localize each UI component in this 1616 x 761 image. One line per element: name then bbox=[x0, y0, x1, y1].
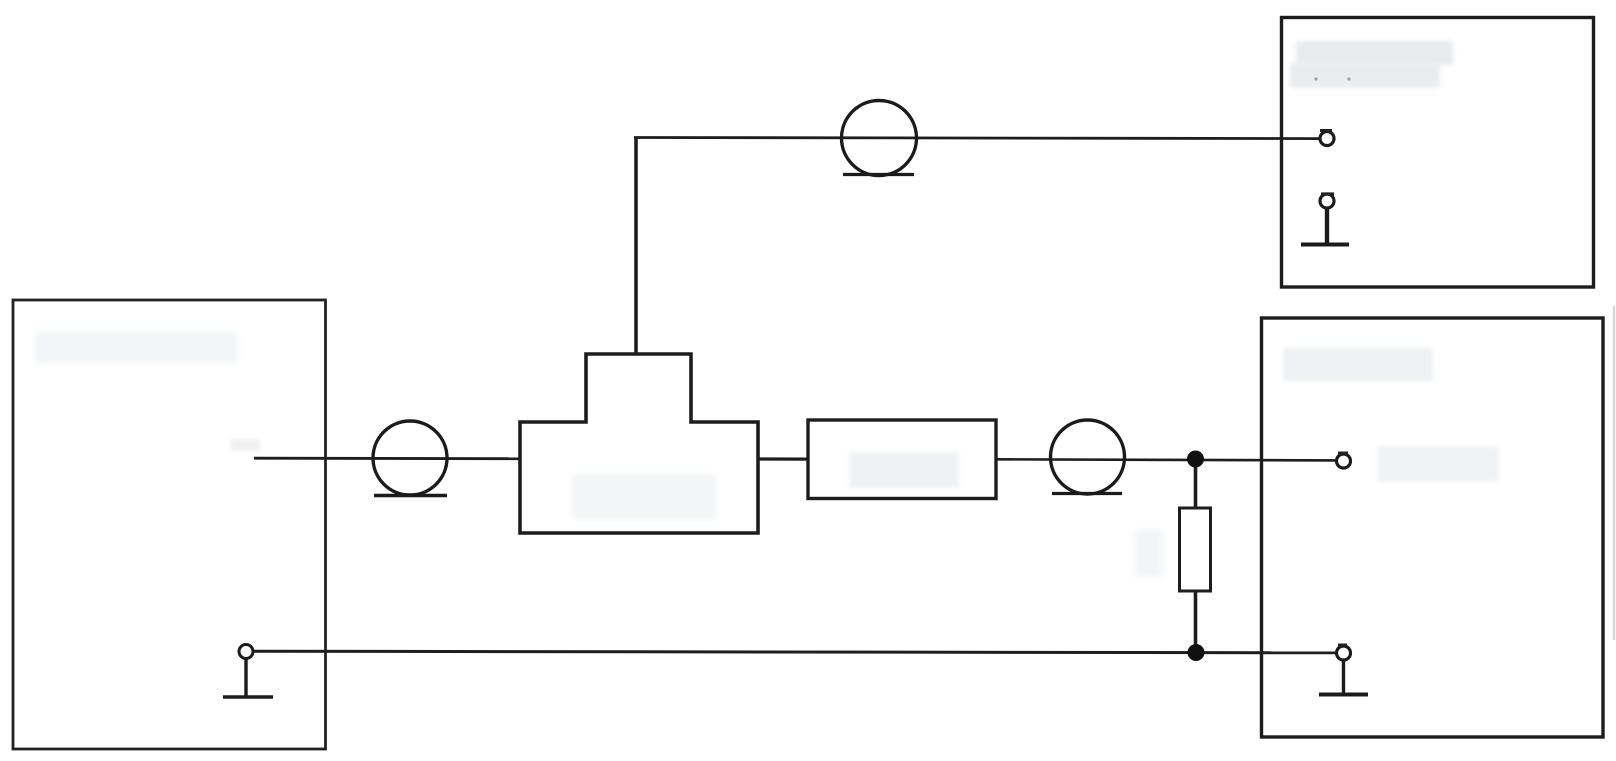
wire: attenuator through clamp 2 to receiver terminal bbox=[996, 459, 1337, 460]
speck 2 in blurred label bbox=[1347, 77, 1350, 80]
terminal: receiver ground input bbox=[1337, 646, 1351, 660]
attenuator block bbox=[808, 420, 996, 499]
ground: generator ground symbol bbox=[223, 659, 273, 698]
terminal: receiver signal input bbox=[1337, 454, 1351, 468]
tick above auxiliary ground terminal bbox=[1321, 192, 1334, 195]
blurred label: receiver box title bbox=[1283, 348, 1433, 381]
blurred label: attenuator bbox=[849, 452, 959, 488]
tick above receiver input terminal bbox=[1338, 452, 1348, 455]
tick above auxiliary input terminal bbox=[1320, 129, 1332, 132]
blurred marks near generator output lead bbox=[230, 439, 260, 451]
wire: ground return run bbox=[252, 651, 1337, 653]
blurred label: beside receiver terminal bbox=[1377, 446, 1499, 482]
coupling device (T-shaped block) bbox=[520, 354, 758, 533]
scan artifact: faint page edge line at far right bbox=[1613, 306, 1615, 640]
wire: top horizontal run to auxiliary instrument bbox=[634, 138, 1320, 139]
node: junction of resistor and ground run bbox=[1188, 644, 1205, 661]
blurred label: auxiliary instrument box line 2 bbox=[1290, 63, 1440, 88]
blurred label: resistor value bbox=[1135, 530, 1163, 577]
terminal: auxiliary instrument input bbox=[1320, 132, 1334, 146]
ground: auxiliary instrument ground symbol bbox=[1301, 208, 1349, 245]
blurred label: generator box bbox=[35, 332, 238, 363]
node: junction of clamp2 wire and resistor bbox=[1187, 451, 1204, 468]
speck 1 in blurred label bbox=[1314, 77, 1317, 80]
resistor R (vertical) bbox=[1180, 508, 1211, 591]
wire: coupling device to attenuator bbox=[758, 457, 810, 460]
clamp 1 base bar bbox=[374, 494, 447, 498]
wire: node to resistor top bbox=[1194, 459, 1198, 510]
clamp 3 base bar bbox=[843, 173, 914, 176]
terminal: generator ground terminal bbox=[239, 645, 253, 659]
generator box (left equipment) bbox=[13, 300, 326, 749]
blurred label: auxiliary instrument box line 1 bbox=[1296, 41, 1453, 65]
current clamp 3 (circle on top run) bbox=[842, 101, 917, 176]
blurred label: coupling device bbox=[572, 474, 716, 519]
ground: receiver ground symbol bbox=[1319, 660, 1368, 695]
wire: resistor bottom to ground node bbox=[1194, 589, 1198, 653]
auxiliary instrument box (top right) bbox=[1282, 18, 1594, 288]
terminal: auxiliary instrument ground bbox=[1320, 194, 1334, 208]
wire: vertical riser from top wire into coupling device bbox=[634, 137, 638, 357]
receiver / EUT box (bottom right) bbox=[1262, 318, 1604, 737]
clamp 2 base bar bbox=[1052, 492, 1122, 495]
current clamp 2 (circle after attenuator) bbox=[1051, 420, 1125, 494]
tick above receiver ground terminal bbox=[1338, 644, 1347, 647]
current clamp 1 (circle on generator lead) bbox=[373, 421, 447, 495]
wire: main signal run, generator output to coupling device bbox=[254, 457, 522, 460]
